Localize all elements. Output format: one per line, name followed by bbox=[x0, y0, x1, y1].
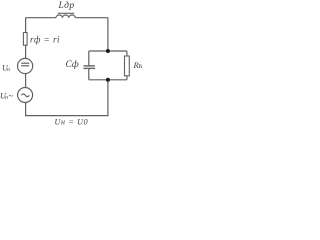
svg-text:o: o bbox=[7, 67, 10, 73]
svg-text:Сф: Сф bbox=[66, 59, 79, 70]
svg-text:rф = ri: rф = ri bbox=[30, 35, 60, 45]
svg-text:Lдр: Lдр bbox=[58, 0, 75, 11]
svg-text:Rн: Rн bbox=[133, 60, 143, 70]
svg-text:Uн = U0: Uн = U0 bbox=[55, 118, 89, 127]
svg-text:~: ~ bbox=[9, 92, 14, 101]
